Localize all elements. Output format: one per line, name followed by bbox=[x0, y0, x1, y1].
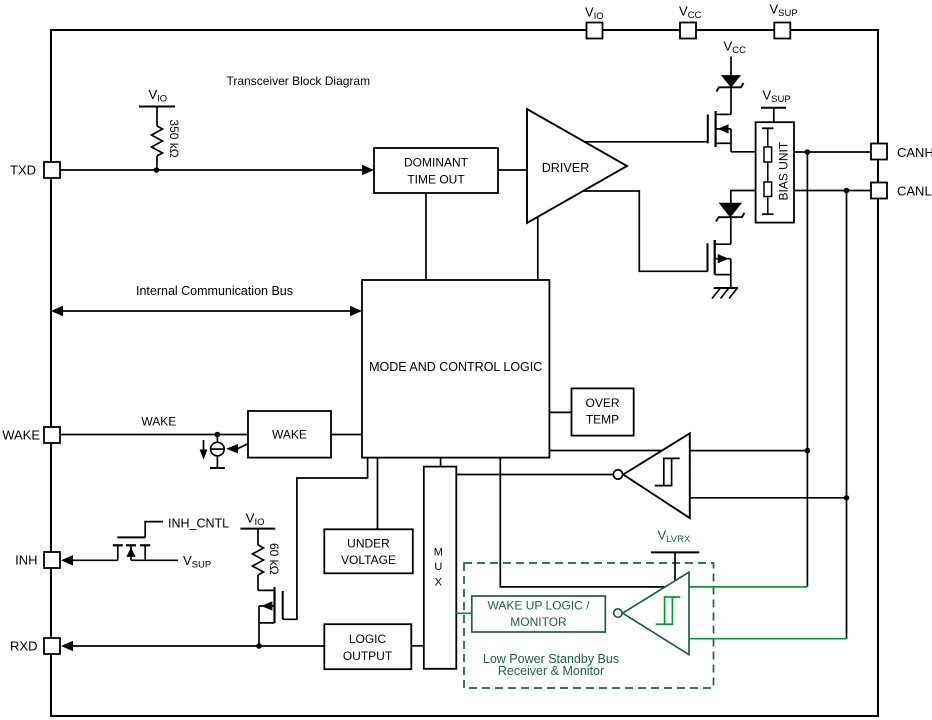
pin TXD bbox=[44, 162, 60, 178]
dominant time out box bbox=[374, 148, 498, 193]
transistor Q1 high-side bbox=[708, 111, 731, 152]
mux box bbox=[424, 467, 457, 669]
svg-text:TXD: TXD bbox=[10, 163, 36, 178]
bus Internal Communication Bus bbox=[51, 284, 362, 316]
power rail VIO (R1) bbox=[139, 107, 175, 127]
wake box bbox=[248, 411, 331, 458]
diode D2 zener bbox=[716, 203, 744, 221]
wire U3 input from CANL bbox=[689, 638, 847, 640]
wire RXD net with arrow bbox=[61, 641, 324, 651]
svg-text:LOGIC: LOGIC bbox=[349, 632, 387, 646]
wire mode logic to low power monitor bbox=[500, 458, 665, 587]
wire INH net with arrow bbox=[61, 555, 118, 565]
wire Q3 source to VSUP bbox=[131, 559, 178, 561]
pin CANL bbox=[871, 183, 887, 199]
svg-text:M: M bbox=[434, 546, 443, 558]
wire CANL net bbox=[794, 190, 871, 192]
wire mux to wake up logic bbox=[456, 612, 472, 614]
pin CANH bbox=[871, 144, 887, 160]
wire U3 input from CANH bbox=[689, 586, 807, 588]
transistor Q2 low-side bbox=[708, 240, 731, 288]
svg-text:Receiver & Monitor: Receiver & Monitor bbox=[498, 664, 604, 678]
node RXD junction bbox=[256, 643, 262, 649]
svg-text:CANH: CANH bbox=[897, 145, 932, 160]
svg-text:WAKE UP LOGIC /: WAKE UP LOGIC / bbox=[487, 599, 590, 613]
svg-text:UNDER: UNDER bbox=[347, 537, 390, 551]
bias unit U4 bbox=[756, 122, 794, 222]
op-amp U2 receiver bbox=[613, 433, 689, 518]
node WAKE junction bbox=[215, 432, 221, 438]
wire Q3 gate to INH_CNTL bbox=[145, 522, 163, 538]
svg-text:WAKE: WAKE bbox=[141, 415, 176, 429]
wire wake box to mode logic bbox=[331, 434, 362, 436]
wire R2 to Q4 drain bbox=[258, 589, 275, 591]
wire dominant-time-out to mode logic bbox=[425, 193, 427, 280]
wire TXD to dominant-time-out bbox=[60, 165, 374, 175]
wire mode logic to receiver enable bbox=[549, 450, 662, 452]
wire receiver output to mux bbox=[456, 474, 613, 476]
ground bbox=[712, 288, 738, 299]
wire mode logic to over temp bbox=[549, 411, 571, 413]
node TXD-R1 junction bbox=[154, 167, 160, 173]
svg-text:MONITOR: MONITOR bbox=[510, 615, 567, 629]
transistor Q3 INH driver bbox=[113, 537, 150, 560]
wire bias unit to D2 bbox=[731, 191, 756, 204]
power rail VLVRX bbox=[651, 552, 699, 581]
wire mode logic to mux bbox=[440, 458, 442, 467]
wire receiver input from CANH bbox=[690, 450, 808, 452]
svg-text:60 kΩ: 60 kΩ bbox=[267, 543, 281, 575]
pin INH bbox=[44, 552, 60, 568]
pin VIO bbox=[587, 23, 603, 39]
node receiver CANL junction bbox=[844, 495, 850, 501]
under voltage box bbox=[324, 529, 413, 573]
wire mode logic to under voltage bbox=[377, 458, 379, 530]
pin VSUP bbox=[774, 23, 790, 39]
node receiver CANH junction bbox=[805, 448, 811, 454]
svg-text:CANL: CANL bbox=[897, 184, 932, 199]
svg-text:RXD: RXD bbox=[10, 639, 37, 654]
pin WAKE bbox=[44, 427, 60, 443]
wire logic output to mux bbox=[411, 645, 424, 647]
svg-text:OUTPUT: OUTPUT bbox=[343, 649, 393, 663]
svg-text:Internal Communication Bus: Internal Communication Bus bbox=[136, 284, 293, 298]
node CANL junction bbox=[844, 188, 850, 194]
wire VCC to D1 bbox=[730, 57, 732, 76]
svg-text:VOLTAGE: VOLTAGE bbox=[341, 553, 396, 567]
wire D1 to Q1 drain bbox=[730, 87, 732, 114]
svg-text:OVER: OVER bbox=[585, 396, 619, 410]
label low power standby bbox=[483, 652, 619, 678]
mode and control logic box bbox=[362, 280, 549, 458]
logic output box bbox=[324, 624, 411, 669]
wire CANH to receiver input bbox=[806, 152, 808, 587]
wire driver to mode logic bbox=[537, 217, 539, 280]
over temp box bbox=[572, 388, 634, 435]
svg-text:BIAS UNIT: BIAS UNIT bbox=[777, 141, 791, 200]
wire Q1 source to bias unit bbox=[731, 151, 756, 153]
svg-text:350 kΩ: 350 kΩ bbox=[167, 119, 181, 157]
svg-text:U: U bbox=[434, 561, 442, 573]
wire receiver input from CANL bbox=[690, 497, 847, 499]
svg-text:TEMP: TEMP bbox=[586, 413, 619, 427]
transistor Q4 RXD pull bbox=[259, 587, 283, 646]
svg-text:DRIVER: DRIVER bbox=[542, 161, 590, 175]
diode D1 zener bbox=[717, 76, 744, 92]
node CANH junction bbox=[805, 149, 811, 155]
power rail VSUP (bias) bbox=[761, 108, 786, 122]
wire CANL to receiver input bbox=[846, 191, 848, 639]
arrow wake box to current source bbox=[226, 444, 248, 454]
resistor R2 60k bbox=[253, 545, 264, 590]
svg-text:INH_CNTL: INH_CNTL bbox=[168, 517, 229, 531]
wire driver upper output to Q1 gate bbox=[585, 141, 708, 143]
svg-text:WAKE: WAKE bbox=[272, 428, 307, 442]
pin RXD bbox=[44, 638, 60, 654]
svg-text:WAKE: WAKE bbox=[2, 428, 40, 443]
svg-text:INH: INH bbox=[15, 553, 37, 568]
pin VCC bbox=[680, 23, 696, 39]
wire WAKE net bbox=[60, 434, 248, 436]
svg-text:TIME OUT: TIME OUT bbox=[407, 173, 465, 187]
low power standby dashed box bbox=[464, 563, 714, 688]
wire driver lower output to Q2 gate bbox=[583, 191, 707, 271]
arrow current direction bbox=[200, 440, 208, 460]
op-amp DRIVER bbox=[527, 109, 627, 223]
svg-text:X: X bbox=[435, 576, 443, 588]
svg-text:Transceiver Block Diagram: Transceiver Block Diagram bbox=[227, 74, 371, 88]
op-amp U3 low power receiver bbox=[614, 572, 689, 655]
power rail VIO (R2) bbox=[240, 529, 275, 545]
wire dominant-time-out to driver bbox=[498, 169, 527, 171]
wake up logic monitor box bbox=[472, 596, 606, 632]
wire D2 to Q2 drain bbox=[730, 217, 732, 244]
wire CANH net bbox=[794, 151, 871, 153]
svg-text:DOMINANT: DOMINANT bbox=[404, 156, 469, 170]
current source I1 bbox=[210, 435, 225, 469]
resistor R1 350k bbox=[152, 126, 163, 170]
wire mode logic to Q4 gate bbox=[283, 458, 368, 620]
svg-text:MODE AND CONTROL LOGIC: MODE AND CONTROL LOGIC bbox=[369, 360, 542, 374]
